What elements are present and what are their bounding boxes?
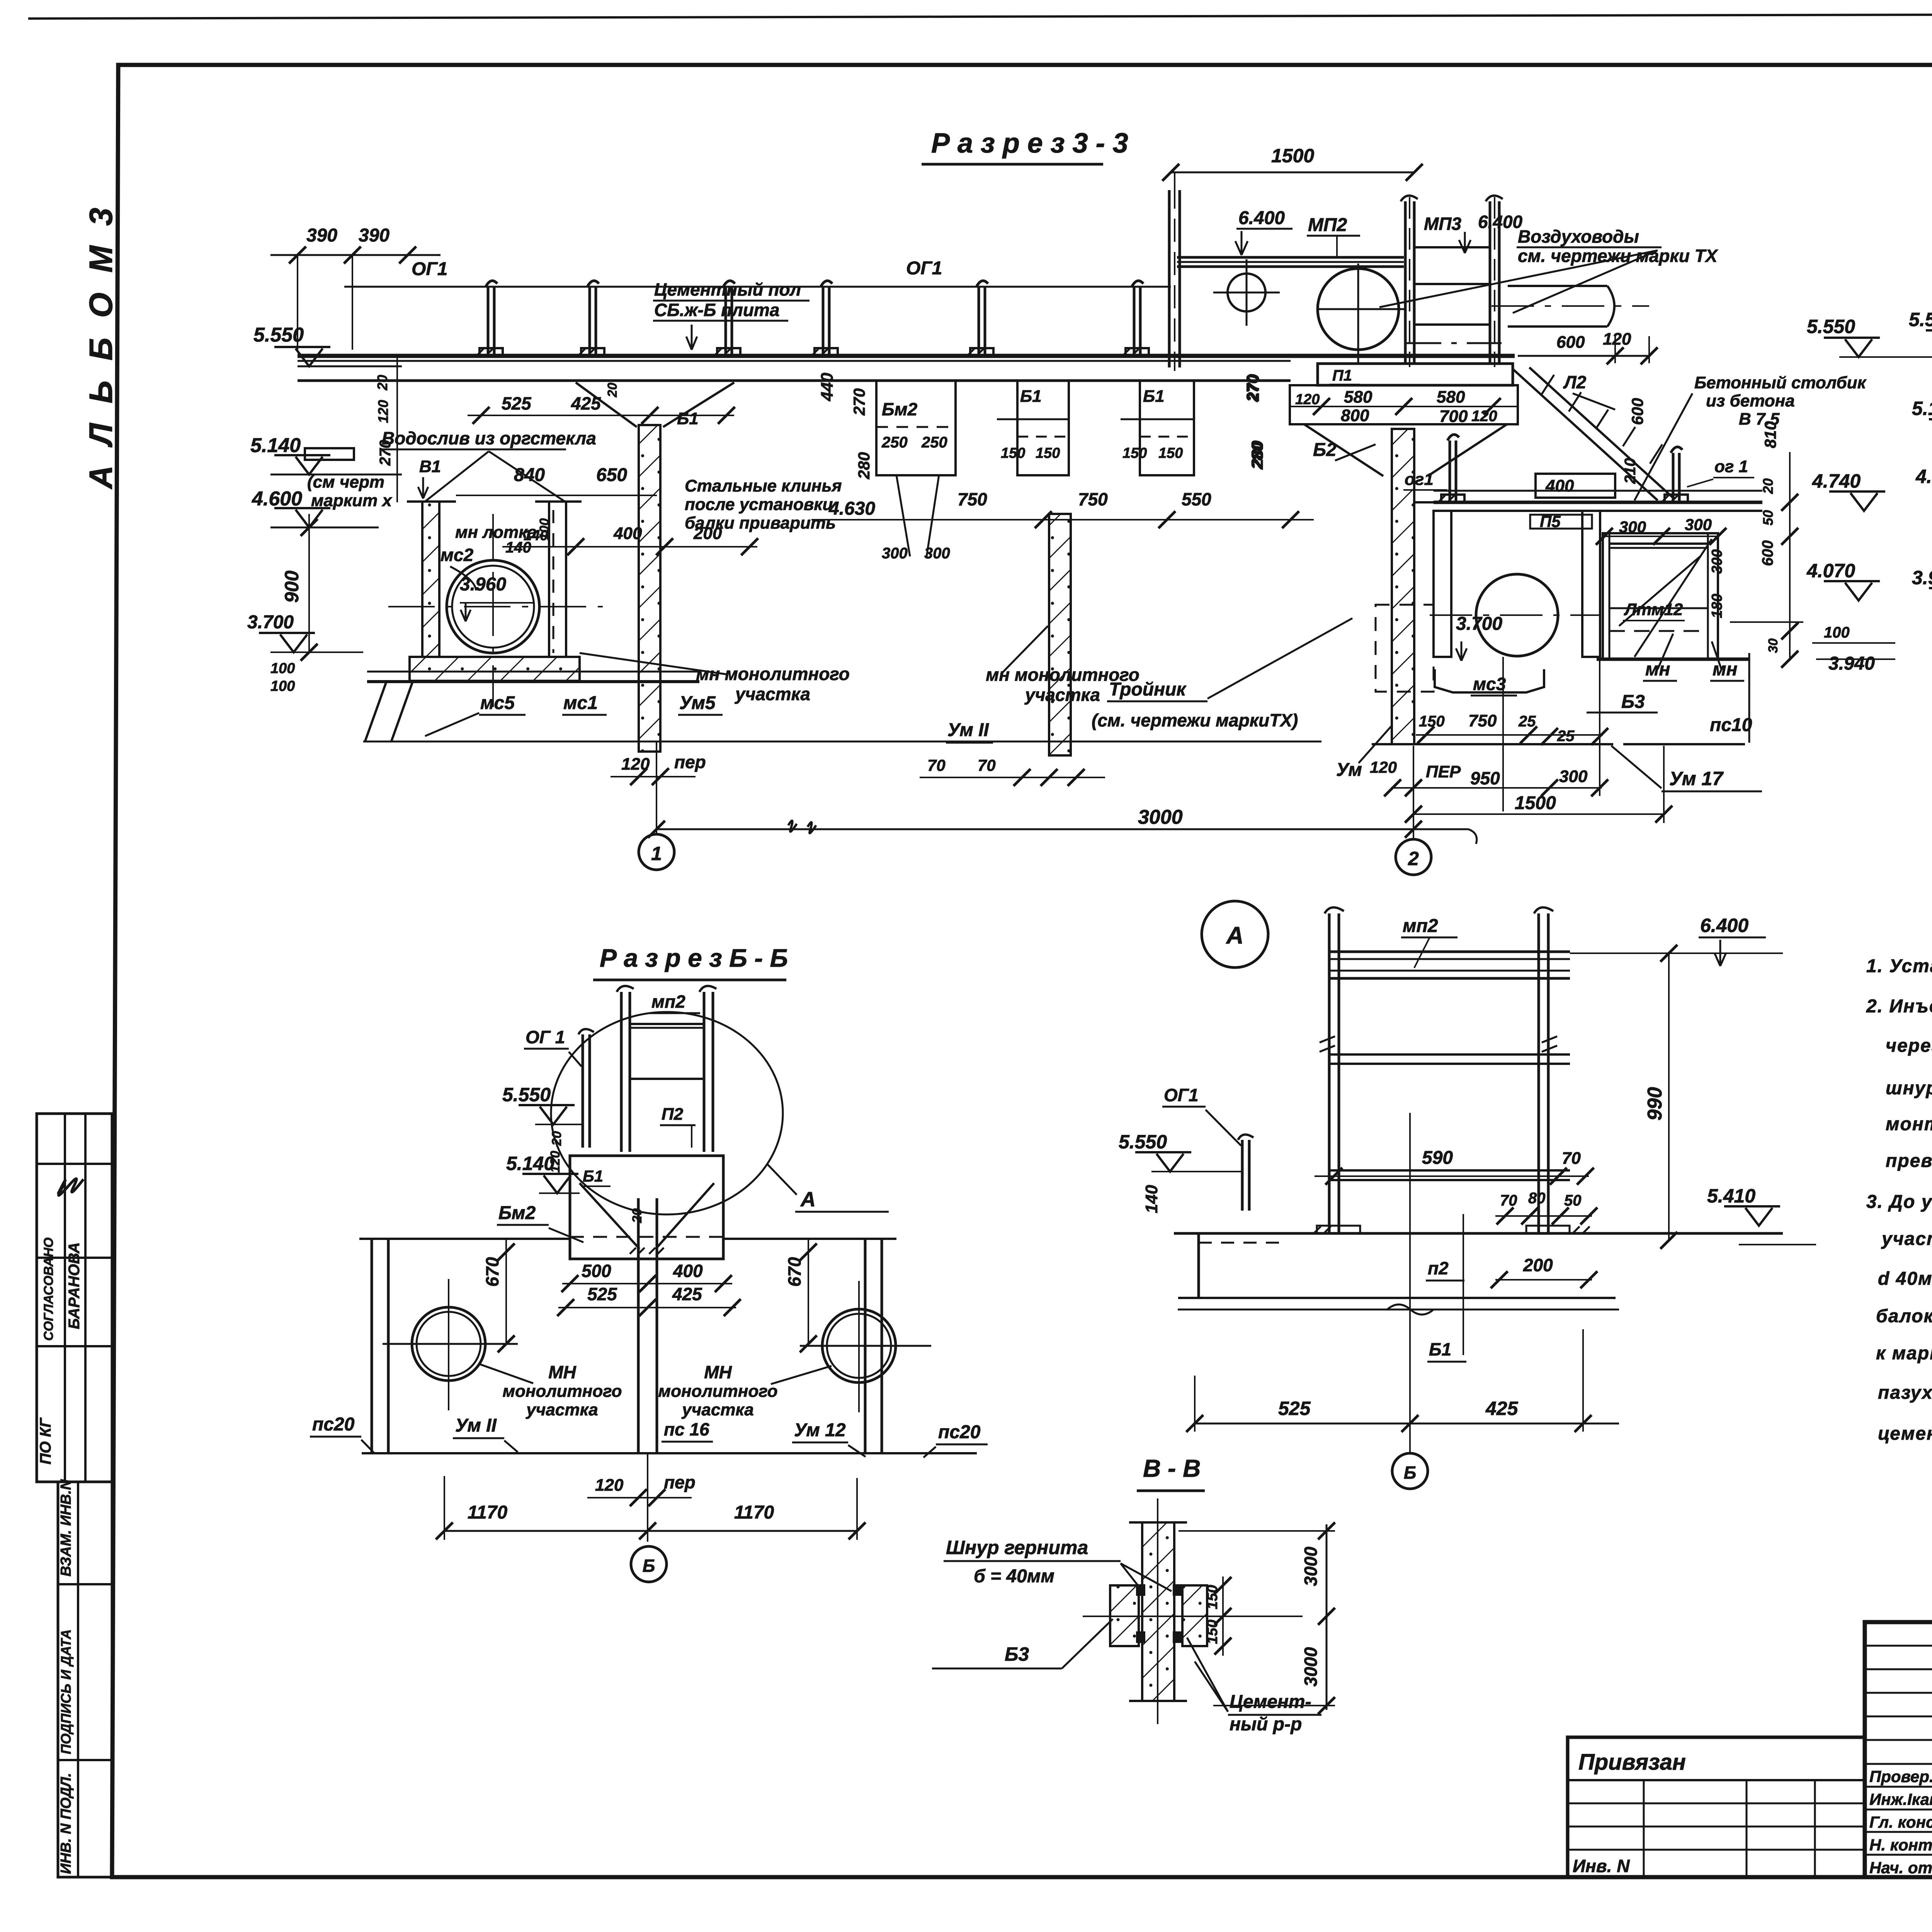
svg-text:900: 900 <box>281 570 303 603</box>
svg-text:4.630: 4.630 <box>828 498 875 519</box>
svg-text:монолитного: монолитного <box>658 1382 778 1401</box>
svg-text:4.070: 4.070 <box>1806 560 1855 582</box>
svg-text:4.740: 4.740 <box>1812 470 1861 492</box>
pipe B-B left <box>412 1307 485 1381</box>
troinik dashed box <box>1376 605 1434 692</box>
svg-text:Ум5: Ум5 <box>679 693 716 713</box>
svg-text:100: 100 <box>270 678 295 694</box>
hatched pier under B1 no.1 (axis Um11) <box>1049 514 1071 755</box>
svg-text:ОГ1: ОГ1 <box>412 259 448 279</box>
svg-text:1500: 1500 <box>1515 793 1556 813</box>
svg-text:20: 20 <box>549 1131 564 1146</box>
svg-text:Б1: Б1 <box>1429 1339 1451 1359</box>
A-view column caps <box>1325 907 1553 913</box>
svg-text:1. Установка балок Б1÷Б3 п: 1. Установка балок Б1÷Б3 производится с … <box>1866 956 1932 976</box>
svg-text:50: 50 <box>1564 1192 1582 1209</box>
svg-text:Цемент-: Цемент- <box>1230 1692 1311 1712</box>
P1 platform <box>1318 364 1513 385</box>
svg-text:3.940: 3.940 <box>1828 653 1875 674</box>
svg-text:Б1: Б1 <box>677 409 699 428</box>
air duct pipe right of tower <box>1508 285 1607 287</box>
svg-text:ВЗАМ. ИНВ.N: ВЗАМ. ИНВ.N <box>58 1479 74 1577</box>
long bottom line 3-3 <box>363 741 1321 743</box>
svg-text:70: 70 <box>978 756 996 774</box>
svg-text:20: 20 <box>605 383 620 398</box>
tank floor left <box>359 1238 570 1240</box>
svg-text:пер: пер <box>664 1472 696 1492</box>
axis circle 1 <box>639 834 674 870</box>
trough left (Um5 bay) <box>422 502 439 657</box>
V-V horizontal axis <box>1083 1616 1303 1617</box>
svg-text:5.550: 5.550 <box>1807 316 1855 337</box>
svg-text:пазухи между ними и: пазухи между ними и марками мс13 заполня… <box>1878 1383 1932 1403</box>
svg-text:В1: В1 <box>419 457 441 476</box>
A-view og1 post <box>1241 1140 1244 1211</box>
svg-text:650: 650 <box>596 465 627 485</box>
svg-text:80: 80 <box>1528 1190 1546 1207</box>
svg-text:Б1: Б1 <box>583 1167 603 1185</box>
svg-text:ПОДПИСЬ И ДАТА: ПОДПИСЬ И ДАТА <box>58 1629 74 1754</box>
svg-text:(см черт: (см черт <box>307 473 384 492</box>
svg-text:Б: Б <box>1404 1463 1417 1483</box>
svg-text:5.140: 5.140 <box>250 434 301 457</box>
svg-text:1: 1 <box>651 843 662 864</box>
svg-text:5.140: 5.140 <box>1912 398 1932 419</box>
svg-text:мс2: мс2 <box>440 545 474 565</box>
block 400 on slab <box>1536 474 1615 498</box>
left margin lower stamp block <box>58 1482 112 1877</box>
detail circle A on B-B <box>551 1012 783 1214</box>
thick line under mn box <box>1597 658 1750 661</box>
pipe centerline horizontal <box>388 606 603 607</box>
svg-text:800: 800 <box>1341 406 1369 425</box>
svg-text:120: 120 <box>1370 758 1397 776</box>
svg-text:180: 180 <box>1709 594 1725 618</box>
svg-text:670: 670 <box>784 1257 804 1287</box>
svg-text:участка: участка <box>681 1400 754 1419</box>
svg-text:А Л Ь Б О М 3: А Л Ь Б О М 3 <box>83 202 119 490</box>
A-view ground line <box>1174 1232 1783 1235</box>
svg-text:390: 390 <box>306 225 337 246</box>
svg-text:20: 20 <box>1760 478 1776 494</box>
svg-text:150: 150 <box>1204 1585 1221 1609</box>
lower line right bay a <box>1372 743 1613 745</box>
svg-text:ИНВ. N ПОДЛ.: ИНВ. N ПОДЛ. <box>58 1773 74 1874</box>
svg-text:участка: участка <box>1024 685 1100 705</box>
svg-text:4.600: 4.600 <box>252 488 302 510</box>
mn panel box right <box>1603 533 1718 659</box>
vodosliv leaders <box>425 451 565 502</box>
svg-text:1500: 1500 <box>1271 145 1314 167</box>
svg-text:см. чертежи марки ТХ: см. чертежи марки ТХ <box>1518 246 1718 266</box>
pipe B-B right <box>822 1309 896 1383</box>
svg-text:300: 300 <box>1559 767 1588 786</box>
V-V dims 150/150 <box>1222 1577 1224 1656</box>
svg-text:100: 100 <box>537 518 552 540</box>
svg-text:270: 270 <box>850 388 868 416</box>
svg-text:120: 120 <box>1295 391 1320 408</box>
tower ladder rungs <box>1414 246 1490 248</box>
B-B bottom line <box>362 1452 977 1454</box>
svg-text:монолитного: монолитного <box>503 1382 622 1401</box>
svg-text:d 40мм. Марки мс13: d 40мм. Марки мс13 привариваются к закла… <box>1878 1269 1932 1289</box>
axis circle 2 <box>1396 839 1431 875</box>
axis circles 1 and 2 <box>656 742 657 834</box>
privyazan block <box>1568 1737 1865 1877</box>
Bm2 box below slab <box>876 381 956 475</box>
svg-text:425: 425 <box>571 393 601 413</box>
svg-text:мс5: мс5 <box>480 693 515 713</box>
guard post x=2935 <box>1122 281 1149 356</box>
svg-text:3.960: 3.960 <box>460 574 506 595</box>
svg-text:3. До установки лотков: 3. До установки лотков на панели пс10 и … <box>1866 1192 1932 1212</box>
svg-text:440: 440 <box>818 372 837 401</box>
svg-text:Б1: Б1 <box>1020 387 1042 406</box>
svg-text:Б: Б <box>643 1556 655 1576</box>
svg-text:300: 300 <box>924 545 950 562</box>
svg-text:950: 950 <box>1470 768 1500 788</box>
A-view columns <box>1328 913 1331 1233</box>
svg-text:Тройник: Тройник <box>1109 679 1187 700</box>
svg-text:из бетона: из бетона <box>1706 391 1795 410</box>
og1 post on 4.740 left <box>1438 435 1464 502</box>
hatched pier axis 2 <box>1392 429 1414 744</box>
svg-text:280: 280 <box>855 452 873 480</box>
guard post x=1526 <box>578 281 604 356</box>
svg-text:210: 210 <box>1622 458 1639 484</box>
svg-text:Ум II: Ум II <box>947 720 989 740</box>
svg-text:580: 580 <box>1344 388 1372 406</box>
svg-text:3.700: 3.700 <box>1456 614 1502 634</box>
svg-text:5.550: 5.550 <box>502 1084 551 1105</box>
V-V side blocks B3 <box>1110 1585 1139 1646</box>
svg-text:525: 525 <box>502 393 532 413</box>
svg-text:Ум: Ум <box>1336 760 1362 780</box>
svg-text:120: 120 <box>375 400 391 423</box>
svg-text:Привязан: Привязан <box>1578 1750 1686 1775</box>
detail circle A view <box>1202 901 1268 968</box>
title block outer <box>1865 1622 1932 1877</box>
svg-text:150: 150 <box>1036 445 1060 461</box>
guard post x=2533 <box>967 281 993 356</box>
leader lines vozduhovody <box>1379 250 1658 313</box>
svg-text:20: 20 <box>374 375 390 391</box>
gernit cord squares <box>1136 1584 1145 1596</box>
svg-text:участка: участка <box>526 1400 598 1419</box>
svg-text:В - В: В - В <box>1143 1454 1201 1482</box>
svg-text:мп2: мп2 <box>651 992 685 1012</box>
svg-text:390: 390 <box>359 225 389 246</box>
arrow to slab <box>686 325 697 350</box>
svg-text:3.960: 3.960 <box>1912 567 1932 588</box>
svg-text:1170: 1170 <box>468 1502 508 1523</box>
dim extension <box>352 255 353 350</box>
svg-text:750: 750 <box>1078 489 1108 509</box>
svg-text:пс 16: пс 16 <box>664 1419 709 1439</box>
svg-text:5.410: 5.410 <box>1707 1185 1755 1207</box>
svg-text:120: 120 <box>595 1476 624 1495</box>
svg-text:ный р-р: ный р-р <box>1230 1714 1302 1735</box>
svg-text:670: 670 <box>482 1257 502 1287</box>
svg-text:300: 300 <box>1709 549 1725 574</box>
svg-text:участка: участка <box>735 684 810 704</box>
ladder L2 stringers <box>1513 367 1674 500</box>
support legs <box>365 682 413 741</box>
svg-text:ог1: ог1 <box>1405 470 1434 489</box>
lower line A-view <box>1178 1309 1619 1311</box>
tank floor right <box>723 1238 896 1240</box>
svg-text:400: 400 <box>1545 476 1574 495</box>
4.740 slab top <box>1434 501 1762 504</box>
svg-text:шнура. (см. сечение в-в) Доп: шнура. (см. сечение в-в) Допускаемые отк… <box>1886 1078 1932 1099</box>
svg-text:590: 590 <box>1422 1148 1453 1168</box>
svg-text:3000: 3000 <box>1301 1647 1321 1687</box>
svg-text:ог 1: ог 1 <box>1714 457 1748 476</box>
5.550 level foot line <box>298 366 402 367</box>
svg-text:6.400: 6.400 <box>1478 212 1523 232</box>
svg-text:ОГ1: ОГ1 <box>906 258 942 279</box>
B-B og1 post <box>582 1034 584 1148</box>
right dim chain line <box>1789 452 1791 661</box>
svg-text:70: 70 <box>1562 1149 1581 1168</box>
svg-text:Бетонный столбик: Бетонный столбик <box>1694 373 1867 392</box>
MP2 walkway beam top <box>1177 256 1404 259</box>
svg-text:425: 425 <box>672 1284 702 1304</box>
svg-text:цементным раствором.: цементным раствором. <box>1878 1423 1932 1444</box>
B-B beam box <box>570 1156 723 1259</box>
svg-text:Б1: Б1 <box>1143 387 1165 406</box>
svg-text:МН: МН <box>704 1362 732 1382</box>
svg-text:Бм2: Бм2 <box>498 1203 536 1223</box>
V-V axis vertical <box>1157 1498 1158 1724</box>
svg-text:550: 550 <box>1182 489 1211 509</box>
svg-text:П1: П1 <box>1332 367 1352 384</box>
svg-text:Ум 12: Ум 12 <box>794 1420 846 1440</box>
V-V wall bar <box>1142 1522 1174 1701</box>
taper under Bm2 <box>896 475 939 556</box>
svg-text:280: 280 <box>1248 440 1266 468</box>
svg-text:270: 270 <box>1244 374 1262 401</box>
svg-text:425: 425 <box>1485 1398 1519 1419</box>
ventilation tower columns <box>1404 201 1407 364</box>
svg-text:Инв. N: Инв. N <box>1573 1856 1630 1876</box>
svg-text:5.550: 5.550 <box>1119 1131 1167 1153</box>
lower line right bay b <box>1623 743 1745 745</box>
A-view mid beam <box>1330 1053 1570 1056</box>
svg-text:3000: 3000 <box>1301 1546 1321 1586</box>
svg-text:150: 150 <box>1001 445 1025 461</box>
4.740 slab upper thin <box>1434 490 1762 492</box>
left margin upper stamp block <box>37 1114 112 1482</box>
B1 box no.2 <box>1140 381 1194 475</box>
svg-text:п2: п2 <box>1428 1258 1449 1278</box>
guard post x=2130 <box>811 281 838 356</box>
svg-text:25: 25 <box>1518 713 1536 730</box>
svg-text:120: 120 <box>548 1151 563 1173</box>
svg-text:2. Инъектирование стыка бал: 2. Инъектирование стыка балки Б1÷Б3 с па… <box>1866 996 1932 1017</box>
svg-text:СОГЛАСОВАНО: СОГЛАСОВАНО <box>41 1238 56 1341</box>
svg-text:200: 200 <box>1523 1255 1553 1275</box>
svg-text:Провер.: Провер. <box>1869 1767 1932 1786</box>
svg-text:600: 600 <box>1556 333 1585 352</box>
svg-text:мн: мн <box>1645 659 1670 680</box>
column caps <box>1401 196 1503 201</box>
ms3 bracket <box>1435 669 1544 692</box>
svg-text:балок Б3. Лотки через: балок Б3. Лотки через закладные детали п… <box>1876 1306 1932 1327</box>
funnel B-B <box>580 1183 714 1249</box>
axis circle B of A-view <box>1392 1453 1428 1489</box>
svg-text:300: 300 <box>1685 515 1712 534</box>
svg-text:70: 70 <box>1500 1192 1517 1209</box>
svg-text:5.140: 5.140 <box>506 1153 554 1174</box>
dim line 900 <box>308 514 310 653</box>
svg-text:4.790: 4.790 <box>1915 466 1932 487</box>
svg-text:Б2: Б2 <box>1313 440 1337 460</box>
svg-text:120: 120 <box>1603 330 1631 349</box>
vodosliv rectangle <box>305 448 354 460</box>
B-B mp2 columns + ladder <box>620 992 623 1152</box>
svg-text:400: 400 <box>673 1261 703 1281</box>
joint break marks <box>1320 1036 1557 1052</box>
svg-text:140: 140 <box>1142 1185 1161 1213</box>
pipe end arc <box>1607 286 1614 327</box>
lower box with dims 580/580 <box>1290 385 1518 424</box>
guard post x=1263 <box>476 281 503 356</box>
svg-text:мн: мн <box>1713 659 1738 680</box>
pipe circle right trough <box>1476 574 1558 656</box>
svg-text:250: 250 <box>881 434 908 451</box>
svg-text:990: 990 <box>1644 1087 1666 1121</box>
svg-text:525: 525 <box>587 1284 617 1304</box>
bottom line under trough <box>367 680 699 683</box>
svg-text:превышать ±5мм.: превышать ±5мм. <box>1886 1151 1932 1171</box>
svg-text:А: А <box>1226 922 1244 949</box>
trough bottom slab <box>410 657 580 681</box>
svg-text:СБ.ж-Б плита: СБ.ж-Б плита <box>654 300 779 320</box>
svg-text:П2: П2 <box>662 1105 684 1124</box>
svg-text:Л2: Л2 <box>1563 372 1587 392</box>
svg-text:Шнур гернита: Шнур гернита <box>946 1537 1088 1558</box>
A-view third beam <box>1330 1169 1570 1172</box>
guard post x=1878 <box>714 281 740 356</box>
svg-text:А: А <box>800 1188 816 1211</box>
svg-text:Гл. конст.: Гл. конст. <box>1869 1813 1932 1831</box>
svg-text:Б3: Б3 <box>1621 692 1645 712</box>
B1 box no.1 <box>1017 381 1069 475</box>
svg-text:пс20: пс20 <box>312 1414 355 1435</box>
svg-text:Нач. отд: Нач. отд <box>1869 1859 1932 1877</box>
svg-text:3.700: 3.700 <box>247 612 294 633</box>
svg-text:100: 100 <box>270 660 295 677</box>
pipe centerline vertical <box>492 514 494 707</box>
sheet outer top edge <box>28 13 1932 19</box>
svg-text:750: 750 <box>957 489 987 509</box>
svg-text:Р а з р е з 3 - 3: Р а з р е з 3 - 3 <box>931 128 1128 159</box>
4.070 level line <box>1730 621 1803 623</box>
svg-text:50: 50 <box>1760 510 1776 526</box>
svg-text:150: 150 <box>1122 445 1147 461</box>
svg-text:300: 300 <box>882 545 908 562</box>
svg-text:БАРАНОВА: БАРАНОВА <box>66 1242 83 1329</box>
svg-text:1170: 1170 <box>734 1502 774 1523</box>
svg-text:120: 120 <box>1471 408 1497 425</box>
svg-text:пер: пер <box>674 752 706 772</box>
svg-text:5.550: 5.550 <box>1909 309 1932 330</box>
svg-text:участки Ум 17, Ум 18 на: участки Ум 17, Ум 18 наклеивается гернит… <box>1881 1229 1932 1249</box>
B-B central column <box>637 1198 640 1453</box>
funnel to pier axis 2 <box>1304 424 1507 476</box>
svg-text:(см. чертежи маркиТХ): (см. чертежи маркиТХ) <box>1092 710 1298 730</box>
svg-text:810: 810 <box>1761 421 1779 448</box>
svg-text:3000: 3000 <box>1138 806 1183 828</box>
B-B tank walls <box>371 1239 373 1453</box>
pipe circle left trough <box>447 560 539 653</box>
central hatched pier PER (axis 1) <box>639 425 660 752</box>
svg-text:монтаже балок от разбив: монтаже балок от разбивочной оси не долж… <box>1886 1114 1932 1134</box>
svg-text:Б3: Б3 <box>1005 1643 1029 1665</box>
svg-text:30: 30 <box>1766 638 1781 653</box>
og1 post on 4.740 right <box>1662 447 1688 502</box>
svg-text:через тампонажные трубочки: через тампонажные трубочки после проклад… <box>1886 1036 1932 1056</box>
svg-text:840: 840 <box>514 465 545 485</box>
A-view axis line <box>1409 1113 1411 1452</box>
tall column axis 2 left of tower <box>1168 190 1171 367</box>
main slab beam band 3-3 <box>298 354 1515 358</box>
guard rail OG1 line <box>344 286 1171 288</box>
svg-text:Лтм12: Лтм12 <box>1624 600 1683 619</box>
svg-text:ОГ 1: ОГ 1 <box>526 1027 565 1047</box>
svg-text:250: 250 <box>921 434 947 451</box>
svg-text:ПЕР: ПЕР <box>1426 762 1461 781</box>
svg-text:600: 600 <box>1759 540 1776 566</box>
A-view base plates <box>1317 1226 1360 1233</box>
svg-text:580: 580 <box>1437 388 1465 406</box>
svg-text:525: 525 <box>1278 1398 1311 1419</box>
svg-text:Ум II: Ум II <box>455 1415 497 1436</box>
svg-text:750: 750 <box>1468 711 1497 730</box>
svg-text:500: 500 <box>582 1261 611 1281</box>
svg-text:Р а з р е з Б - Б: Р а з р е з Б - Б <box>600 944 788 972</box>
svg-text:после установки: после установки <box>685 495 833 514</box>
A-view top beam mp2 <box>1330 951 1570 953</box>
svg-text:5.550: 5.550 <box>253 324 304 346</box>
svg-text:Инж.Iкат: Инж.Iкат <box>1869 1790 1932 1808</box>
dim line 400/200 <box>502 546 757 548</box>
svg-text:100: 100 <box>1824 624 1850 641</box>
svg-text:600: 600 <box>1628 398 1646 425</box>
svg-text:ОГ1: ОГ1 <box>1164 1085 1199 1105</box>
svg-text:Водослив из оргстекла: Водослив из оргстекла <box>382 428 596 448</box>
trough right top line <box>1414 501 1603 503</box>
svg-text:МН: МН <box>548 1362 576 1382</box>
svg-text:к маркам мс13 (см. лист 2: к маркам мс13 (см. лист 21). После устан… <box>1876 1343 1932 1364</box>
svg-text:200: 200 <box>693 524 722 543</box>
break squiggle <box>788 821 816 833</box>
svg-text:пс10: пс10 <box>1710 715 1752 735</box>
svg-text:150: 150 <box>1204 1620 1221 1644</box>
V-V dims 3000/3000 <box>1326 1524 1328 1710</box>
svg-text:Ум 17: Ум 17 <box>1669 768 1724 789</box>
svg-text:2: 2 <box>1408 848 1419 869</box>
svg-text:6.400: 6.400 <box>1238 208 1285 228</box>
svg-text:Стальные клинья: Стальные клинья <box>685 476 842 495</box>
svg-text:мс3: мс3 <box>1473 674 1506 694</box>
svg-text:70: 70 <box>927 756 946 774</box>
svg-text:6.400: 6.400 <box>1700 915 1748 936</box>
svg-text:Бм2: Бм2 <box>882 399 918 419</box>
signature squiggle left stamp <box>58 1179 83 1195</box>
svg-text:ПО КГ: ПО КГ <box>37 1417 54 1464</box>
